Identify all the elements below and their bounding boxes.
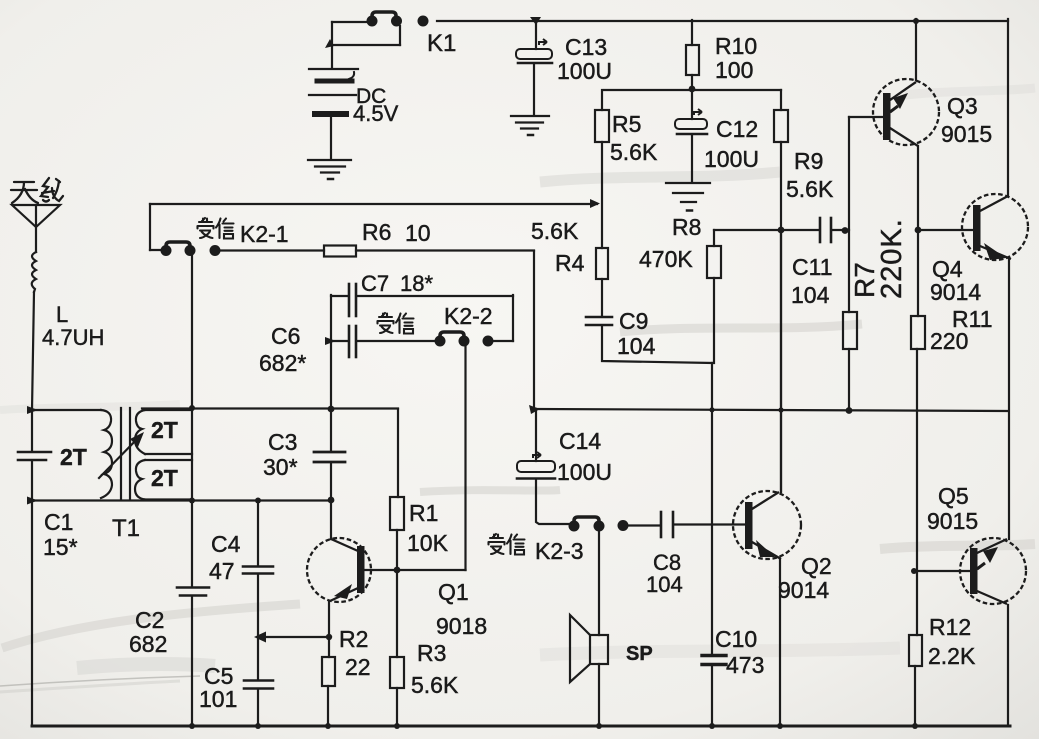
svg-text:C11: C11 <box>792 254 833 280</box>
svg-text:C1: C1 <box>44 509 73 535</box>
svg-text:L: L <box>56 302 68 327</box>
svg-text:R3: R3 <box>417 640 446 666</box>
svg-text:2T: 2T <box>60 444 87 470</box>
svg-text:101: 101 <box>199 686 237 712</box>
svg-text:C2: C2 <box>135 607 164 633</box>
svg-text:R1: R1 <box>409 500 438 526</box>
svg-text:104: 104 <box>646 572 683 597</box>
svg-text:5.6K: 5.6K <box>411 672 459 698</box>
svg-text:100U: 100U <box>557 459 612 485</box>
svg-text:C6: C6 <box>271 323 300 349</box>
svg-text:2.2K: 2.2K <box>928 643 976 669</box>
svg-text:R8: R8 <box>672 214 701 240</box>
svg-text:C7: C7 <box>361 271 389 296</box>
svg-text:10: 10 <box>405 220 431 246</box>
svg-text:Q2: Q2 <box>801 553 832 579</box>
svg-text:9018: 9018 <box>436 613 487 639</box>
svg-text:Q3: Q3 <box>947 93 978 119</box>
svg-text:18*: 18* <box>400 271 433 296</box>
svg-text:9015: 9015 <box>927 508 978 534</box>
svg-text:R12: R12 <box>929 614 971 640</box>
svg-text:R4: R4 <box>555 250 585 276</box>
svg-text:5.6K: 5.6K <box>786 176 834 202</box>
svg-text:R6: R6 <box>362 219 391 245</box>
svg-text:5.6K: 5.6K <box>531 218 579 244</box>
svg-text:C14: C14 <box>559 428 601 454</box>
svg-text:R9: R9 <box>794 148 823 174</box>
svg-text:2T: 2T <box>151 465 178 491</box>
svg-text:R10: R10 <box>715 33 757 59</box>
svg-text:4.5V: 4.5V <box>353 101 399 126</box>
svg-text:K2-3: K2-3 <box>535 538 584 564</box>
svg-text:473: 473 <box>726 652 764 678</box>
svg-text:R5: R5 <box>612 111 641 137</box>
svg-text:9014: 9014 <box>930 279 981 305</box>
svg-text:15*: 15* <box>43 534 78 560</box>
svg-text:K2-2: K2-2 <box>444 303 493 329</box>
svg-text:Q1: Q1 <box>438 579 469 605</box>
svg-text:220K.: 220K. <box>876 218 908 299</box>
svg-text:9015: 9015 <box>941 121 992 147</box>
svg-text:C4: C4 <box>211 531 241 557</box>
svg-text:682*: 682* <box>259 350 306 376</box>
svg-text:C9: C9 <box>619 308 648 334</box>
svg-text:C10: C10 <box>715 626 757 652</box>
svg-text:9014: 9014 <box>778 577 829 603</box>
svg-text:10K: 10K <box>407 530 449 556</box>
svg-text:R2: R2 <box>339 626 368 652</box>
svg-text:47: 47 <box>209 558 235 584</box>
svg-text:682: 682 <box>129 631 167 657</box>
svg-text:K2-1: K2-1 <box>240 221 289 247</box>
svg-text:C13: C13 <box>565 34 607 60</box>
svg-text:22: 22 <box>345 654 371 680</box>
svg-text:5.6K: 5.6K <box>610 139 658 165</box>
svg-text:K1: K1 <box>427 30 456 57</box>
svg-text:100U: 100U <box>557 58 612 84</box>
svg-text:30*: 30* <box>263 454 298 480</box>
svg-text:100: 100 <box>715 57 753 83</box>
svg-text:SP: SP <box>626 643 653 665</box>
svg-text:470K: 470K <box>639 246 693 272</box>
svg-text:104: 104 <box>617 333 656 359</box>
svg-text:104: 104 <box>791 282 830 308</box>
svg-text:Q5: Q5 <box>938 483 969 509</box>
svg-text:100U: 100U <box>704 146 759 172</box>
svg-text:220: 220 <box>930 328 968 354</box>
svg-text:C12: C12 <box>716 116 758 142</box>
svg-text:C3: C3 <box>268 429 297 455</box>
svg-text:4.7UH: 4.7UH <box>42 325 104 350</box>
svg-text:2T: 2T <box>151 417 178 443</box>
svg-text:T1: T1 <box>112 515 140 542</box>
